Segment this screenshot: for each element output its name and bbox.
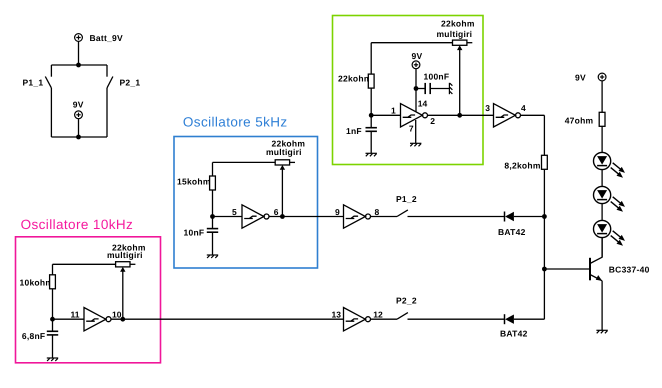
wire feedback top [371,42,452,44]
ground (pin 7) [410,143,421,146]
svg-text:47ohm: 47ohm [565,115,594,125]
wire [514,216,545,218]
svg-text:2: 2 [430,116,435,126]
svg-text:8,2kohm: 8,2kohm [504,160,540,170]
svg-text:3: 3 [485,103,490,113]
wire wiper [459,49,461,115]
switch P1_2 [397,210,408,217]
wire collector [601,238,603,258]
wire [601,170,603,187]
ground (100nF, rotated) [449,83,452,94]
svg-text:9V: 9V [575,72,586,82]
svg-text:8: 8 [375,207,380,217]
wire feedback top (pink box) [53,263,116,265]
LED D2 [594,186,626,211]
wire output pin6 [269,216,343,218]
op-amp U1A schmitt inverter [401,104,428,127]
node junction [210,214,215,219]
ground (1nF) [366,153,377,156]
wire right bus top [543,115,545,155]
wire pin4 to bus [520,114,544,116]
svg-text:BAT42: BAT42 [498,227,526,237]
node junction [76,135,81,140]
op-amp U1E schmitt inverter (10kHz) [84,308,111,331]
wire [514,318,545,320]
wire output pin2 [427,114,493,116]
ground (6,8nF) [47,358,58,361]
diode BAT42 (bottom) [505,314,514,324]
node junction [542,267,547,272]
svg-text:1: 1 [391,105,396,115]
svg-text:P2_1: P2_1 [120,78,141,88]
wire [408,216,505,218]
diode BAT42 (top) [505,212,514,222]
wire [601,204,603,221]
node junction [414,86,419,91]
battery Batt_9V [75,34,83,42]
wire feedback top (blue box) [213,161,276,163]
switch P2_2 [397,313,408,320]
svg-text:multigiri: multigiri [107,250,143,260]
node junction [280,214,285,219]
wire [601,238,603,258]
wire [601,126,603,152]
svg-text:12: 12 [373,310,383,320]
wire [415,69,417,89]
node junction [120,317,125,322]
svg-text:10: 10 [112,310,122,320]
switch P1_1 [45,65,51,137]
wire output pin12 [371,318,398,320]
wire input pin1 [371,114,400,116]
op-amp U1F schmitt inverter (5kHz) [242,205,269,228]
svg-text:P1_2: P1_2 [396,194,417,204]
node junction [369,113,374,118]
wire [408,318,505,320]
wire emitter [601,281,603,331]
wire [601,81,603,113]
svg-text:6,8nF: 6,8nF [22,331,45,341]
switch P2_1 [107,65,113,137]
node junction [457,113,462,118]
node junction [542,214,547,219]
svg-text:Batt_9V: Batt_9V [90,33,123,43]
ground (10nF) [207,255,218,258]
svg-text:Oscillatore 5kHz: Oscillatore 5kHz [183,115,288,130]
svg-text:22kohm: 22kohm [441,18,475,28]
svg-text:5: 5 [232,207,237,217]
LED D3 [594,220,626,245]
svg-text:7: 7 [409,124,414,134]
transistor Q1 BC337-40 [590,257,602,281]
op-amp U1D schmitt inverter [344,308,371,331]
svg-text:14: 14 [418,99,428,109]
svg-text:P1_1: P1_1 [23,78,44,88]
wire input pin5 [213,216,243,218]
svg-text:100nF: 100nF [424,72,450,82]
svg-text:22kohm: 22kohm [338,74,372,84]
wire output pin8 [371,216,398,218]
wire input pin11 [53,318,85,320]
wire wiper [281,169,283,217]
LED D1 [594,152,626,177]
svg-text:BC337-40: BC337-40 [609,265,650,275]
svg-text:multigiri: multigiri [437,29,473,39]
wire [78,41,80,65]
wire pin 7 [415,120,417,143]
ground (emitter) [596,330,607,333]
svg-text:9V: 9V [412,51,423,61]
wire [51,64,107,66]
op-amp U1C schmitt inverter [344,205,371,228]
node junction [76,63,81,68]
svg-text:9: 9 [335,207,340,217]
svg-text:1nF: 1nF [346,126,362,136]
op-amp U1B schmitt inverter [494,104,521,127]
svg-text:10kohm: 10kohm [20,277,54,287]
node junction [50,317,55,322]
svg-text:Oscillatore 10kHz: Oscillatore 10kHz [21,217,134,232]
svg-text:10nF: 10nF [184,227,205,237]
svg-text:BAT42: BAT42 [500,328,528,338]
svg-text:6: 6 [274,207,279,217]
svg-text:11: 11 [71,310,80,320]
wire right bus [543,169,545,319]
wire base [544,268,590,270]
wire [51,136,107,138]
svg-text:P2_2: P2_2 [396,295,417,305]
wire wiper [122,271,124,320]
svg-text:15kohm: 15kohm [177,176,211,186]
svg-text:multigiri: multigiri [266,147,302,157]
wire [78,119,80,137]
green highlight box [333,16,484,165]
svg-text:4: 4 [521,103,526,113]
wire output pin10 [111,318,343,320]
svg-text:9V: 9V [73,100,84,110]
wire pin 14 [415,89,417,112]
svg-text:13: 13 [332,310,342,320]
